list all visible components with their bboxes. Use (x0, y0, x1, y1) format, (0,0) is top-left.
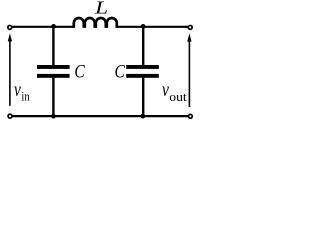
arrow v_out shaft (188, 41, 190, 108)
capacitor C2 plates (126, 65, 159, 69)
wire top rail left segment (10, 26, 74, 28)
capacitor C1 top wire (52, 27, 54, 66)
junction top-left (51, 24, 56, 29)
svg-text:in: in (21, 88, 30, 103)
arrow v_in shaft (9, 41, 11, 106)
wire bottom rail (10, 115, 190, 117)
junction bottom-left (51, 114, 56, 119)
svg-text:v: v (162, 80, 169, 101)
inductor L coil (74, 18, 117, 28)
wire top rail right segment (117, 26, 190, 28)
junction top-right (141, 24, 146, 29)
arrow v_in head (8, 33, 12, 41)
junction bottom-right (140, 114, 145, 119)
svg-text:C: C (74, 62, 85, 82)
svg-text:C: C (115, 62, 126, 82)
svg-text:out: out (169, 89, 187, 104)
arrow v_out head (187, 33, 191, 41)
capacitor C2 top wire (142, 27, 144, 66)
svg-text:v: v (14, 80, 21, 101)
terminal top-right (188, 25, 192, 29)
capacitor C2 bottom wire (142, 78, 144, 117)
capacitor C1 plates (37, 65, 70, 69)
capacitor C1 bottom wire (52, 78, 54, 117)
terminal bottom-left (8, 114, 12, 118)
svg-text:L: L (94, 0, 108, 17)
terminal top-left (8, 25, 12, 29)
terminal bottom-right (188, 114, 192, 118)
